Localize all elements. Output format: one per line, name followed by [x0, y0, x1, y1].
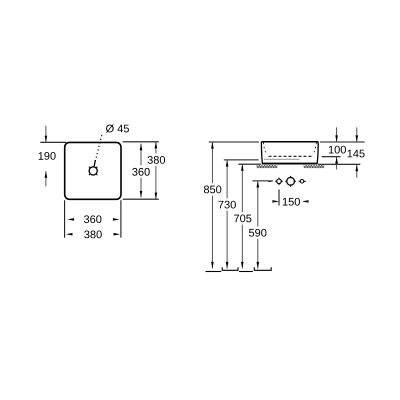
dim 360 bottom: [68, 215, 120, 223]
countertop surface left: [238, 163, 261, 165]
dim 850: [204, 142, 221, 269]
basin inner bowl lines: [263, 143, 316, 160]
rim extension line left: [209, 141, 259, 143]
dim 190: [39, 126, 67, 187]
dim 705: [234, 164, 251, 268]
rim extension line right: [320, 141, 365, 143]
floor line segment 3: [239, 271, 253, 273]
basin plan outline: [65, 142, 121, 199]
countertop surface right: [318, 163, 360, 165]
extension line 730 level: [224, 159, 259, 161]
floor line segment 2: [222, 267, 238, 270]
dim 360 right: [132, 144, 150, 198]
basin side outline: [261, 142, 318, 164]
dim 590: [249, 181, 266, 269]
fitting hole small right: [299, 179, 306, 183]
floor line segment 1: [206, 271, 222, 273]
leader line to drain: [94, 135, 102, 166]
hidden bowl bottom dashed: [269, 155, 313, 157]
floor line segment 4: [254, 267, 271, 270]
fittings center line: [268, 180, 271, 182]
extension line fittings level: [253, 180, 273, 182]
fitting hole center: [285, 176, 296, 187]
countertop hatch right: [304, 165, 325, 168]
dim 145: [348, 127, 365, 177]
fitting hole small left: [275, 178, 283, 186]
drain hole: [89, 167, 97, 175]
dim 150: [272, 190, 308, 206]
dim 100: [329, 127, 346, 169]
bowl depth ref line: [322, 156, 341, 158]
label D45: [106, 124, 129, 132]
countertop hatch left: [257, 165, 278, 168]
dim 380 right: [123, 142, 165, 199]
dim 380 bottom: [65, 200, 121, 238]
dim 730: [218, 160, 235, 269]
